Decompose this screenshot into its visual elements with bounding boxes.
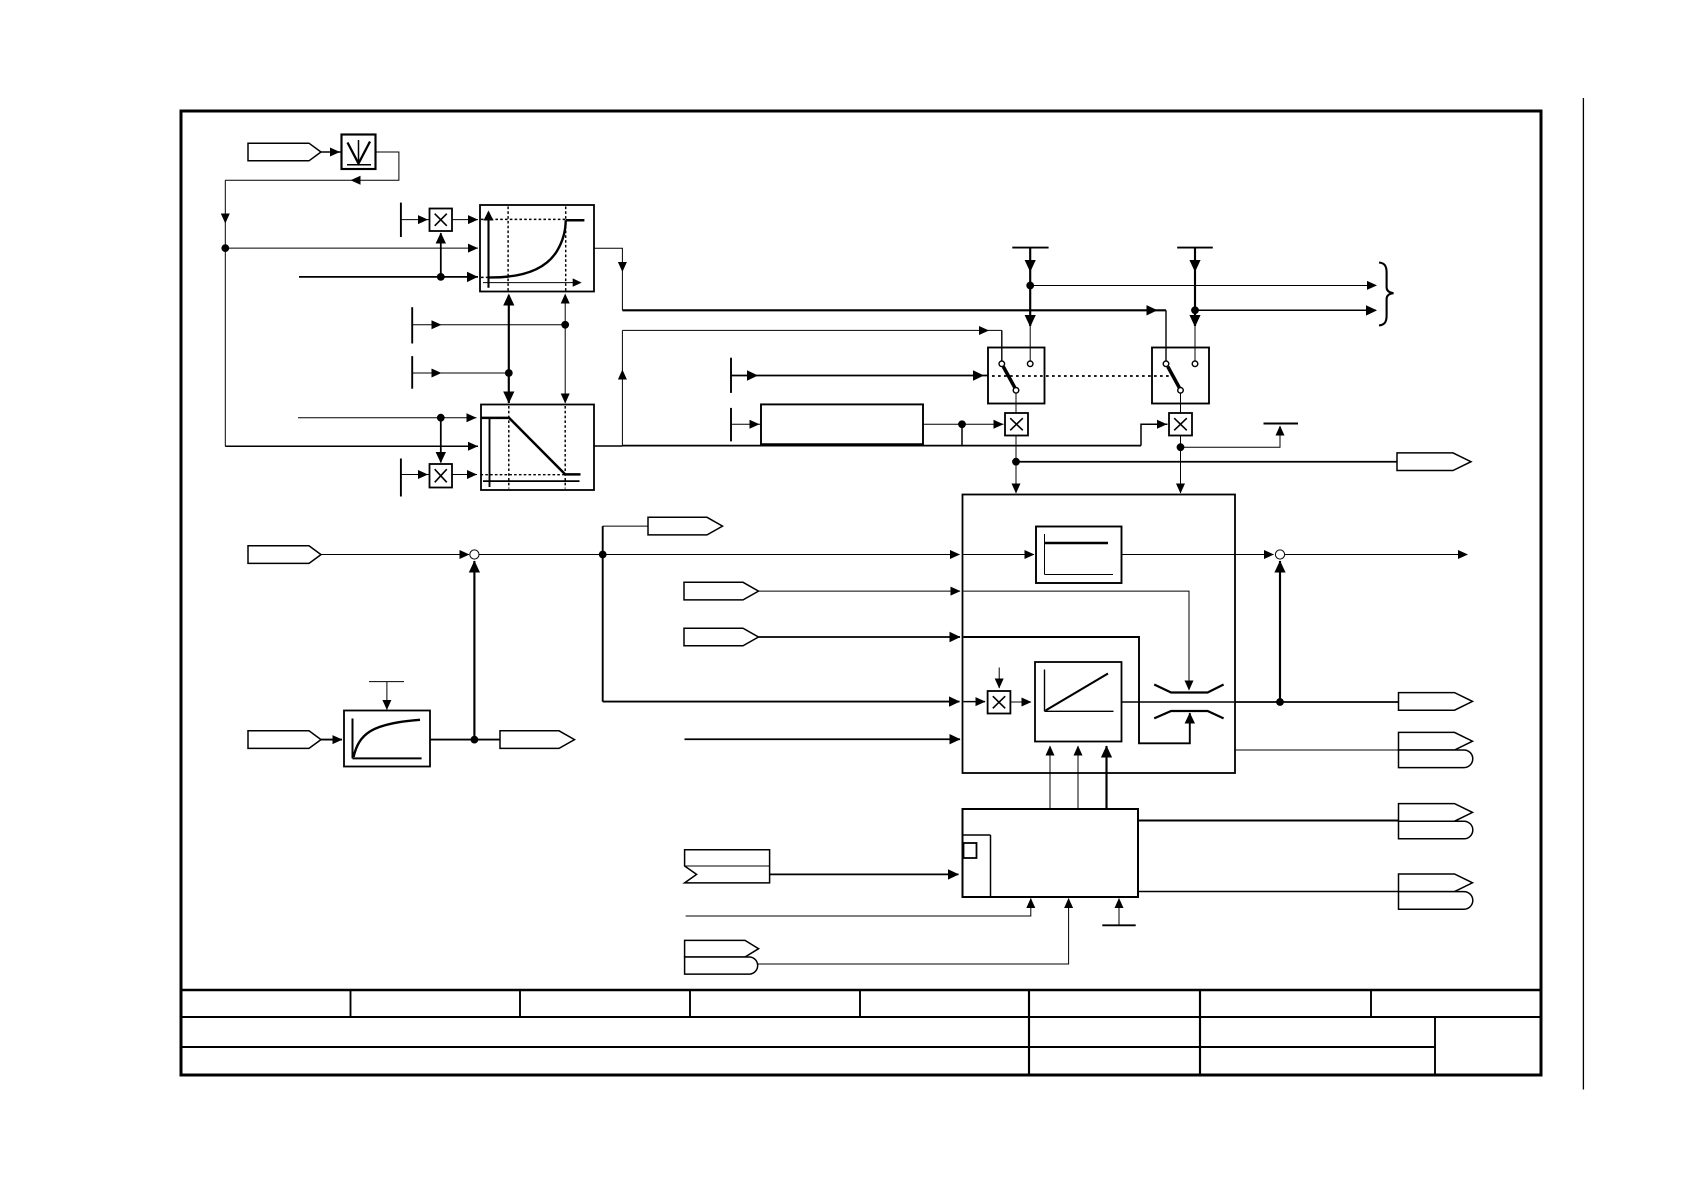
- junction dot x603: [599, 551, 607, 559]
- main function box: [963, 495, 1236, 774]
- wire scaling output: [923, 423, 1004, 425]
- parameter bar X1: [400, 203, 402, 237]
- input connector IN1: [248, 143, 321, 161]
- wire bold input upper curve box: [299, 276, 478, 278]
- junction dot s2: [1177, 443, 1185, 451]
- ramp generator box: [1035, 662, 1122, 742]
- switch2 output stem: [1180, 393, 1182, 413]
- wire page connector to program box: [770, 873, 959, 875]
- output connector OUT0: [1397, 453, 1471, 471]
- output connector OUT1: [1399, 693, 1473, 711]
- upper characteristic box: [480, 205, 594, 292]
- multiplier s1: [1005, 413, 1028, 436]
- ground T terminal: [1102, 924, 1135, 926]
- wire y739 input: [685, 738, 961, 740]
- scaling block rectangle: [761, 404, 923, 444]
- summation circle left: [470, 550, 479, 559]
- wire bar to X4: [401, 474, 430, 476]
- wire bold vertical x1030: [1029, 248, 1031, 326]
- wire IN1 to min block: [321, 151, 342, 153]
- wire trunk to upper curve box: [225, 247, 478, 249]
- output connector OUT-x603: [648, 517, 723, 535]
- wire X3 to ramp box: [1010, 701, 1031, 703]
- wire min block feedback: [225, 152, 399, 180]
- parameter bar X4: [400, 459, 402, 497]
- input connector IN2: [248, 546, 321, 564]
- multiplier X3: [988, 691, 1011, 714]
- wire x603 to connector: [603, 525, 648, 527]
- wire program output 1: [1138, 820, 1399, 822]
- wire bar to scaling block: [731, 423, 761, 425]
- switch2 contacts and lever: [1168, 367, 1180, 388]
- output connector OUT4r: [1399, 874, 1473, 892]
- wire bold main output y702: [1235, 701, 1399, 703]
- wire input lower box y418: [298, 417, 477, 419]
- lower characteristic box: [481, 405, 594, 491]
- wire X1 to upper curve box: [452, 219, 478, 221]
- connector A: [684, 582, 759, 600]
- parameter T-bar x1195: [1177, 247, 1213, 249]
- wire s2 down to big box: [1180, 436, 1182, 494]
- lower box y-axis: [489, 419, 491, 487]
- wire y637 inside loop to limiter bottom: [964, 637, 1190, 743]
- wire bold x1280 up to summation: [1279, 561, 1281, 702]
- junction dot x509: [505, 369, 513, 377]
- output connector OUT4: [500, 731, 575, 749]
- wire inside to multiplier 3: [964, 701, 986, 703]
- hold block: [1036, 527, 1122, 584]
- display T-bar x1280: [1264, 423, 1299, 425]
- upper box dashed guides: [507, 207, 509, 291]
- wire upper box output: [594, 248, 622, 310]
- lower box ramp-down curve: [482, 418, 581, 475]
- switch1 output stem: [1015, 393, 1017, 413]
- output connector OUT3: [1399, 804, 1473, 822]
- parameter bar y325: [411, 307, 413, 343]
- transfer function box: [344, 711, 430, 767]
- page connector notched: [685, 850, 770, 883]
- wire s1 down to big box: [1015, 436, 1017, 494]
- wire y285 east to brace: [1030, 285, 1376, 287]
- wire X4 to lower curve box: [452, 474, 477, 476]
- multiplier X4: [430, 464, 453, 488]
- wire corner down to switch2 port: [1165, 310, 1167, 361]
- wire to east sheet: [1285, 554, 1467, 556]
- junction dot x1195: [1191, 306, 1199, 314]
- wire y310 east to brace: [1195, 309, 1376, 311]
- parameter bar scaling: [730, 408, 732, 442]
- wire y591 inside to limiter top: [964, 591, 1190, 690]
- connector B: [684, 628, 759, 646]
- dotted coupling line: [992, 375, 1172, 377]
- wire transfer box output: [430, 739, 500, 741]
- switch1 contacts and lever: [1003, 367, 1015, 388]
- output connector OUT2: [1399, 732, 1473, 750]
- wire y750 to OUT2: [1235, 749, 1399, 751]
- upper box exponential curve: [489, 220, 566, 277]
- junction dot x565: [561, 321, 569, 329]
- wire bar to x509: [412, 372, 509, 374]
- wire summation to big box: [479, 554, 960, 556]
- wire bold y462 to output: [1016, 461, 1397, 463]
- wire bold x474 up to summation: [473, 561, 475, 740]
- upper box y-axis: [487, 212, 489, 288]
- wire up to multiplier 1: [440, 233, 442, 277]
- junction dot x474: [471, 736, 479, 744]
- switch box 2: [1152, 348, 1209, 404]
- junction dot x962: [958, 420, 966, 428]
- wire up to multiplier s2: [1141, 424, 1168, 445]
- wire bar to x565: [412, 324, 565, 326]
- wire y916 into program box: [686, 899, 1031, 917]
- wire select to switches: [731, 375, 988, 377]
- wire y637 input: [759, 636, 960, 638]
- curly brace outputs: [1379, 263, 1394, 326]
- parameter T-bar transfer box: [369, 681, 404, 683]
- parameter stub X3: [998, 668, 1000, 689]
- junction dot x1030: [1026, 282, 1034, 290]
- wire y330 to switch1 port: [622, 329, 1001, 331]
- program box inner square: [964, 843, 977, 858]
- wire hold block to summation right: [1122, 554, 1274, 556]
- wire bold y702 to big box: [603, 701, 960, 703]
- wire left trunk vertical: [224, 180, 226, 446]
- wire bar to X1: [401, 219, 430, 221]
- input connector double CONN5: [685, 940, 759, 957]
- wire IN2 to summation: [321, 554, 469, 556]
- wire IN3 to transfer box: [321, 739, 342, 741]
- switch box 1: [988, 348, 1045, 404]
- wire x962 down: [961, 424, 963, 445]
- program box inner column: [990, 835, 992, 897]
- wire CONN5 into program box: [758, 899, 1069, 965]
- multiplier X1: [430, 209, 453, 232]
- wire program output 2: [1138, 891, 1399, 893]
- wire bold vertical x509 between boxes: [508, 296, 510, 404]
- program box: [963, 809, 1139, 897]
- wire vertical x622 up: [621, 331, 623, 447]
- three parameter wires into ramp box: [1049, 746, 1051, 809]
- wire trunk to lower curve box: [225, 445, 478, 447]
- parameter T-bar x1030: [1012, 247, 1048, 249]
- wire bold vertical x1195: [1194, 248, 1196, 326]
- junction dot y702: [1276, 698, 1284, 706]
- lower box x-axis: [483, 480, 580, 482]
- wire bold y446: [622, 445, 1141, 447]
- wire vertical x565 between boxes: [564, 296, 566, 404]
- wire down to multiplier 4: [440, 418, 442, 463]
- junction dot left trunk: [221, 244, 229, 252]
- wire lower box output: [594, 445, 622, 447]
- branch vertical x603: [602, 526, 604, 702]
- limiter symbol: [1154, 685, 1223, 693]
- lower box dashed guides: [508, 406, 510, 489]
- wire ramp output through limiter: [1122, 701, 1235, 703]
- input connector IN3: [248, 731, 321, 749]
- wire y447 to display bar: [1181, 426, 1281, 447]
- wire bold y310 to switch2: [622, 309, 1166, 311]
- junction dot x441 lower: [437, 414, 445, 422]
- junction dot s1: [1012, 458, 1020, 466]
- upper box x-axis: [483, 282, 580, 284]
- wire y591 input: [759, 590, 960, 592]
- select parameter bar: [730, 358, 732, 393]
- summation circle right: [1275, 550, 1284, 559]
- parameter bar y373: [411, 356, 413, 389]
- junction dot x441 upper: [437, 273, 445, 281]
- minimum block: [342, 135, 376, 170]
- multiplier s2: [1169, 413, 1192, 436]
- wire inside big box to hold block: [964, 554, 1035, 556]
